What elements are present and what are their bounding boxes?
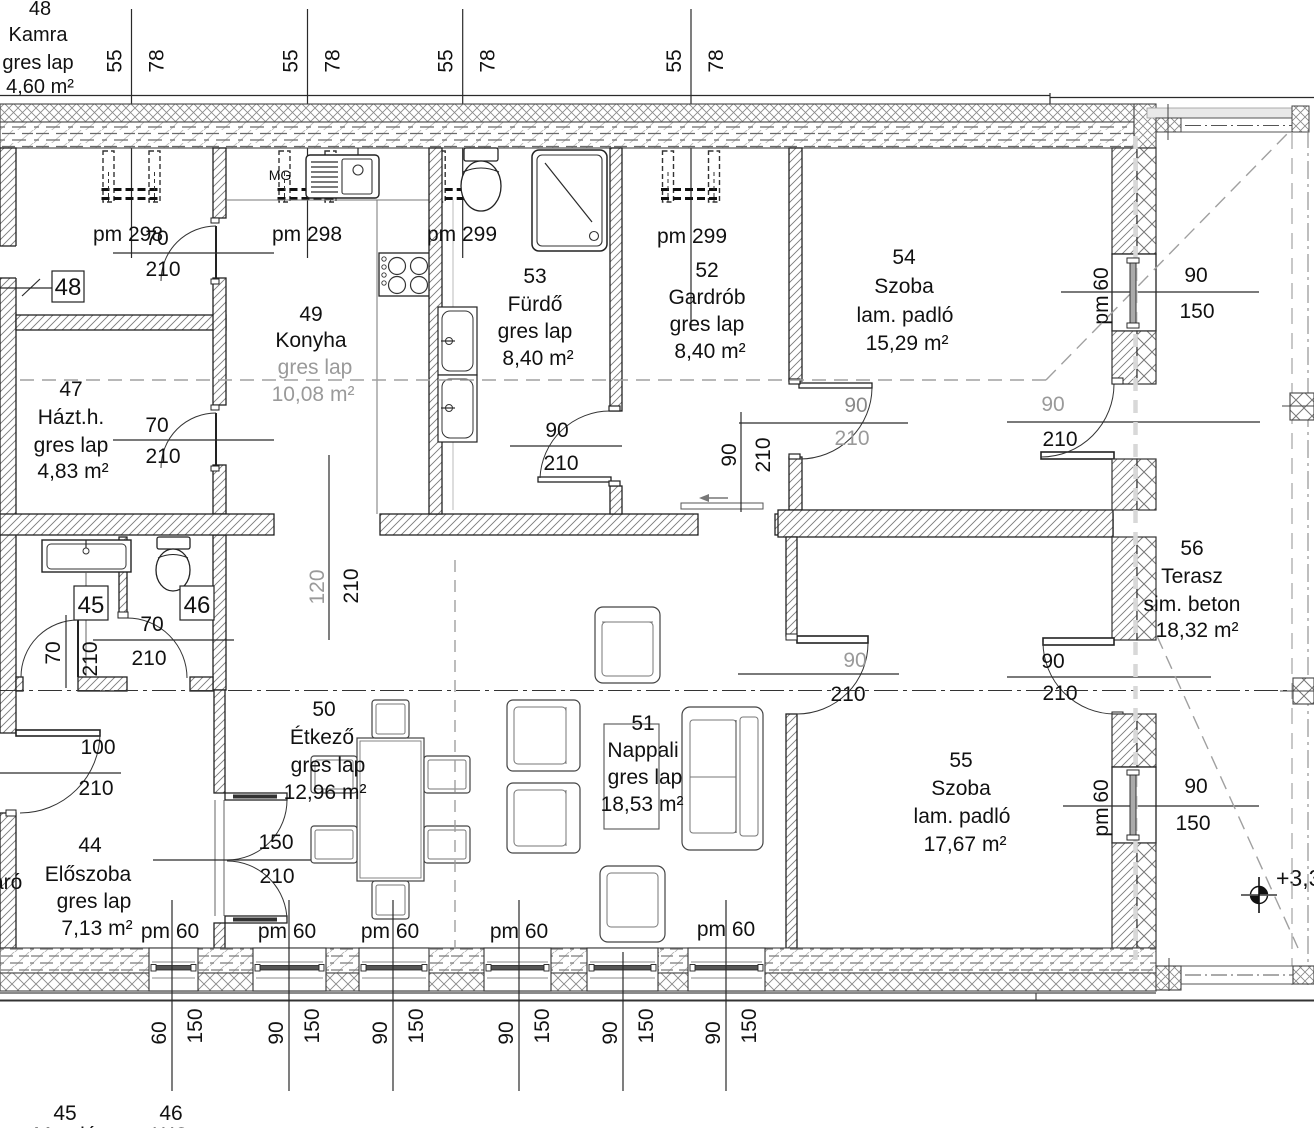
svg-text:50: 50 — [312, 698, 335, 721]
terrace right edge dash-dot vertical — [1307, 130, 1309, 990]
room label 48 Kamra (top-left text block) — [2, 0, 74, 98]
window glazing restamp 55 — [1127, 770, 1139, 840]
svg-text:210: 210 — [543, 452, 578, 475]
dashed divider line Etkezo/Nappali — [454, 560, 456, 947]
svg-text:52: 52 — [695, 259, 718, 282]
svg-text:70: 70 — [140, 613, 163, 636]
terrace band corner block right — [1293, 966, 1314, 984]
Nappali label box — [604, 724, 659, 829]
svg-text:210: 210 — [145, 258, 180, 281]
bottom window 1 — [149, 948, 198, 991]
svg-text:gres lap: gres lap — [608, 766, 683, 789]
bottom wall of rooms 45/46 piece c — [190, 677, 213, 691]
armchair pair left 1 — [507, 700, 580, 771]
svg-text:gres lap: gres lap — [57, 890, 132, 913]
svg-text:90: 90 — [265, 1021, 288, 1044]
horizontal wall below rooms 47/49 (left piece) — [0, 514, 274, 535]
bottom dimension witness line 3 — [369, 900, 428, 1091]
skylight window pm symbol 2 — [278, 151, 338, 202]
dining chair 4 — [311, 826, 357, 863]
dimension 70/210 room46 door — [93, 613, 234, 670]
kitchen sink unit — [306, 148, 379, 198]
dimension 150/210 double door — [153, 831, 311, 888]
room 44 Eloszoba label block — [45, 834, 133, 940]
bottom window 3 — [359, 948, 429, 991]
svg-text:gres lap: gres lap — [34, 434, 109, 457]
bottom exterior wall crosshatch layer — [0, 973, 1156, 991]
east wall W6 segment B — [1112, 459, 1156, 510]
svg-text:pm 60: pm 60 — [141, 920, 199, 943]
svg-text:51: 51 — [631, 712, 654, 735]
svg-text:70: 70 — [42, 641, 65, 664]
bottom dimension witness line 6 — [702, 900, 761, 1091]
bottom dimension witness line 1 — [148, 900, 207, 1091]
svg-text:78: 78 — [705, 49, 728, 72]
terrace band witness tick — [1168, 958, 1170, 991]
dining chair 2 — [372, 881, 409, 919]
entry door leaf and arc (100/210) — [6, 730, 100, 816]
top exterior wall brick/insulation layer — [0, 122, 1134, 148]
roof dashed diagonal B — [1157, 636, 1298, 948]
sofa couch — [682, 707, 763, 850]
shower tray — [532, 150, 607, 251]
svg-text:Házt.h.: Házt.h. — [38, 406, 105, 429]
wall W1 lower segment (right of Hazt.h.) — [213, 465, 226, 514]
armchair bottom — [600, 866, 665, 942]
room 52 Gardrob label block — [668, 259, 745, 363]
column block on right dashed line (upper) — [1282, 393, 1314, 420]
svg-text:60: 60 — [148, 1021, 171, 1044]
svg-text:54: 54 — [892, 246, 916, 269]
dining table — [357, 738, 424, 881]
svg-text:150: 150 — [301, 1008, 324, 1043]
divider wall between WC 45 and WC 46 — [119, 537, 127, 616]
svg-text:120: 120 — [306, 569, 329, 604]
washbasin 1 — [438, 307, 477, 375]
svg-text:53: 53 — [523, 265, 546, 288]
svg-text:150: 150 — [1175, 812, 1210, 835]
skylight window pm symbol 3 — [433, 151, 493, 202]
svg-text:8,40 m²: 8,40 m² — [674, 340, 745, 363]
svg-text:78: 78 — [322, 49, 345, 72]
svg-text:210: 210 — [131, 647, 166, 670]
svg-text:7,13 m²: 7,13 m² — [61, 917, 132, 940]
bottom dimension witness line 4 — [495, 900, 554, 1091]
svg-text:90: 90 — [545, 419, 568, 442]
svg-text:45: 45 — [78, 592, 105, 619]
dimension 90/210 room 55 entrance — [738, 649, 899, 706]
wall W3 lower stub — [610, 486, 622, 514]
svg-text:90: 90 — [1184, 775, 1207, 798]
dimension 90/210 terrace door 55 — [1007, 650, 1211, 705]
svg-text:78: 78 — [477, 49, 500, 72]
bottom window 4 — [484, 948, 551, 991]
east wall W6 segment D (room 55 bottom) — [1112, 843, 1156, 948]
svg-text:90: 90 — [702, 1021, 725, 1044]
column block on right dashed line (lower) — [1280, 678, 1314, 704]
terrace right edge dashed vertical — [1291, 133, 1293, 985]
east wall W6 segment C (room 55 top) — [1112, 537, 1156, 640]
svg-text:210: 210 — [340, 568, 363, 603]
wall W4 lower stub — [789, 457, 802, 510]
room 55 entrance door leaf and arc — [786, 634, 868, 714]
wall between room 48 and room 47 — [16, 315, 226, 330]
svg-text:150: 150 — [1179, 300, 1214, 323]
svg-text:150: 150 — [405, 1008, 428, 1043]
bathroom door (90/210) leaf and arc — [538, 406, 620, 486]
window glazing restamp 54 — [1127, 258, 1139, 328]
svg-text:55: 55 — [663, 49, 686, 72]
svg-text:Étkező: Étkező — [290, 726, 354, 749]
dimension pm60 / 90/150 for room54 window — [1061, 264, 1259, 325]
top dimension chain lines — [0, 93, 1314, 107]
svg-text:áró: áró — [0, 871, 22, 894]
wall W7 lower stub — [214, 923, 225, 948]
svg-text:18,32 m²: 18,32 m² — [1156, 619, 1239, 642]
double door arc 1 — [227, 800, 287, 860]
wall W1 upper segment (right of Kamra) — [213, 148, 226, 218]
svg-text:8,40 m²: 8,40 m² — [502, 347, 573, 370]
double door arc 2 — [227, 861, 287, 921]
horizontal wall between room 54 and room 55 — [778, 510, 1113, 537]
room 51 Nappali label block — [601, 712, 684, 816]
left exterior wall upper segment — [0, 148, 16, 733]
svg-text:gres lap: gres lap — [498, 320, 573, 343]
bottom dimension witness line 2 — [265, 900, 324, 1091]
svg-text:17,67 m²: 17,67 m² — [924, 833, 1007, 856]
dimension 70/210 room45 door (rotated) — [42, 615, 102, 688]
svg-text:150: 150 — [184, 1008, 207, 1043]
east wall W6 segment A (room 54 top) — [1112, 148, 1156, 254]
svg-text:210: 210 — [79, 641, 102, 676]
kitchen opening dimension 120/210 — [306, 455, 363, 640]
svg-text:Konyha: Konyha — [275, 329, 347, 352]
double door leaf 2 — [225, 916, 287, 923]
svg-text:60: 60 — [1090, 267, 1113, 290]
svg-text:pm 60: pm 60 — [258, 920, 316, 943]
svg-text:210: 210 — [145, 445, 180, 468]
terrace band corner block left — [1156, 966, 1181, 990]
east wall W6 block above window 55 — [1112, 714, 1156, 767]
kitchen counter edge lines — [226, 200, 429, 514]
dimension 90/210 terrace door 54 — [1007, 393, 1260, 451]
svg-text:210: 210 — [1042, 682, 1077, 705]
svg-text:90: 90 — [495, 1021, 518, 1044]
svg-text:gres lap: gres lap — [670, 313, 745, 336]
wall W7 jamb lines through opening — [215, 800, 224, 916]
svg-text:55: 55 — [949, 749, 972, 772]
svg-text:Előszoba: Előszoba — [45, 863, 132, 886]
opening in left wall of Kamra — [0, 246, 17, 278]
wall face projection dashed line (terrace side) — [1133, 136, 1138, 960]
svg-text:150: 150 — [531, 1008, 554, 1043]
svg-text:150: 150 — [635, 1008, 658, 1043]
svg-text:210: 210 — [1042, 428, 1077, 451]
bottom exterior wall brick layer — [0, 948, 1156, 973]
svg-text:90: 90 — [1041, 650, 1064, 673]
svg-text:Kamra: Kamra — [9, 24, 69, 46]
svg-text:70: 70 — [145, 414, 168, 437]
hall door dimension 90/210 vertical — [718, 412, 775, 512]
skylight window pm symbol 1 — [102, 151, 162, 202]
svg-text:90: 90 — [1184, 264, 1207, 287]
svg-text:55: 55 — [280, 49, 303, 72]
dining chair 5 — [424, 756, 470, 793]
svg-text:46: 46 — [159, 1102, 182, 1125]
terrace door of room 55 leaf and arc — [1043, 638, 1123, 718]
wall W2 between kitchen and bathroom — [429, 148, 442, 514]
entrance threshold line and arrow — [681, 494, 763, 509]
svg-text:18,53 m²: 18,53 m² — [601, 793, 684, 816]
svg-text:210: 210 — [78, 777, 113, 800]
svg-text:MG: MG — [269, 167, 292, 183]
svg-text:210: 210 — [259, 865, 294, 888]
door room 45 leaf and arc — [21, 620, 78, 677]
dimension 70/210 for room 48 door — [113, 227, 274, 281]
svg-text:78: 78 — [146, 49, 169, 72]
room 54 Szoba label block — [857, 246, 954, 355]
terrace bottom edge band — [1181, 966, 1310, 984]
svg-text:210: 210 — [752, 437, 775, 472]
armchair pair left 2 — [507, 783, 580, 853]
svg-text:49: 49 — [299, 303, 322, 326]
dimension 70/210 for room 47 door — [113, 414, 274, 468]
ground line below building — [0, 993, 1314, 1001]
svg-text:gres lap: gres lap — [278, 356, 353, 379]
svg-text:90: 90 — [718, 443, 741, 466]
svg-text:pm 60: pm 60 — [361, 920, 419, 943]
top dimension witness line 3 with 55/78 labels — [435, 9, 500, 258]
svg-text:55: 55 — [435, 49, 458, 72]
svg-text:lam. padló: lam. padló — [914, 805, 1011, 828]
toilet (bathroom 53) — [461, 148, 501, 211]
svg-text:4,60 m²: 4,60 m² — [6, 76, 74, 98]
svg-text:150: 150 — [258, 831, 293, 854]
svg-text:47: 47 — [59, 378, 82, 401]
svg-text:90: 90 — [599, 1021, 622, 1044]
roof dashed diagonal A — [1046, 133, 1288, 380]
boxed room number 45 — [74, 586, 108, 620]
window pm60 in room 55 east wall — [1112, 767, 1156, 843]
east wall W6 block below window 54 — [1112, 331, 1156, 384]
svg-text:sim. beton: sim. beton — [1144, 593, 1241, 616]
armchair top (near room55 wall) — [595, 607, 660, 683]
washbasin room 45 — [42, 540, 131, 677]
svg-text:10,08 m²: 10,08 m² — [272, 383, 355, 406]
svg-text:48: 48 — [55, 274, 82, 301]
svg-text:Gardrób: Gardrób — [668, 286, 745, 309]
svg-text:44: 44 — [78, 834, 102, 857]
svg-text:210: 210 — [830, 683, 865, 706]
dimension pm60 / 90/150 for room55 window — [1063, 775, 1259, 837]
roof ridge dashed line horizontal — [20, 379, 1046, 381]
top dimension witness line 1 with 55/78 labels — [104, 9, 169, 258]
svg-text:150: 150 — [738, 1008, 761, 1043]
svg-text:15,29 m²: 15,29 m² — [866, 332, 949, 355]
svg-text:pm 298: pm 298 — [93, 223, 163, 246]
window pm60 in room 54 east wall — [1112, 254, 1156, 331]
toilet room 46 — [156, 537, 190, 591]
dimension 90/210 room 54 entrance — [739, 394, 908, 450]
top exterior wall crosshatch layer — [0, 104, 1142, 122]
dimension 90/210 bathroom door — [510, 419, 622, 475]
boxed room number 48 — [52, 271, 84, 302]
bottom dimension witness line 5 — [599, 952, 658, 1091]
room 56 Terasz label block — [1144, 537, 1241, 642]
horizontal wall below rooms 53/52 (middle piece) — [380, 514, 698, 535]
svg-text:48: 48 — [29, 0, 51, 20]
dining chair 1 — [372, 700, 409, 738]
svg-text:WC: WC — [154, 1124, 189, 1128]
top dimension witness line 2 with 55/78 labels — [280, 9, 345, 258]
svg-text:90: 90 — [1041, 393, 1064, 416]
room 50 Etkezo label block — [284, 698, 367, 804]
svg-text:Mosdó: Mosdó — [33, 1124, 96, 1128]
svg-text:pm 298: pm 298 — [272, 223, 342, 246]
top-right wall corner column — [1134, 104, 1156, 148]
cooktop / stove with 4 burners — [379, 253, 432, 296]
section dash-dot line across plan — [0, 690, 1314, 692]
room 49 Konyha label block — [272, 303, 355, 406]
clipped bottom row labels — [33, 1124, 188, 1128]
svg-text:45: 45 — [53, 1102, 76, 1125]
skylight window pm symbol 4 — [661, 151, 721, 202]
svg-text:46: 46 — [184, 592, 211, 619]
door of room 47 (70/210) leaf and arc — [161, 405, 219, 471]
svg-text:55: 55 — [104, 49, 127, 72]
svg-text:Terasz: Terasz — [1161, 565, 1223, 588]
svg-text:Nappali: Nappali — [607, 739, 678, 762]
dining chair 3 — [311, 756, 357, 793]
double door 150/210 leaf 1 — [225, 793, 287, 800]
left wall dimension tick — [0, 279, 52, 296]
door room 46 arc — [118, 612, 187, 678]
bottom window 6 — [688, 948, 765, 991]
svg-text:pm 299: pm 299 — [427, 223, 497, 246]
svg-text:12,96 m²: 12,96 m² — [284, 781, 367, 804]
room 47 label block — [34, 378, 109, 483]
door of room 48 (70/210) leaf and arc — [161, 218, 219, 284]
svg-text:pm: pm — [1090, 807, 1113, 836]
room 55 Szoba label block — [914, 749, 1011, 856]
top-right terrace parapet band — [1147, 104, 1309, 140]
bottom wall of rooms 45/46 piece b — [78, 677, 127, 691]
svg-text:pm 299: pm 299 — [657, 225, 727, 248]
room 54 entrance door leaf and arc — [789, 379, 872, 459]
svg-text:210: 210 — [834, 427, 869, 450]
bottom window 5 — [587, 948, 658, 991]
bottom wall of rooms 45/46 piece a — [16, 677, 23, 691]
svg-text:lam. padló: lam. padló — [857, 304, 954, 327]
wall W1 mid segment — [213, 278, 226, 405]
svg-text:90: 90 — [369, 1021, 392, 1044]
washbasin 2 — [438, 375, 477, 442]
svg-text:gres lap: gres lap — [291, 754, 366, 777]
wall W4 between Gardrob and room 54 — [789, 148, 802, 381]
svg-text:Szoba: Szoba — [931, 777, 991, 800]
horizontal wall right of entrance (under Gardrob / room 54) — [775, 514, 1113, 535]
svg-text:90: 90 — [844, 394, 867, 417]
wall W5 upper segment between Nappali and room 55 — [786, 537, 797, 636]
room 53 Furdo label block — [498, 265, 574, 370]
svg-text:Fürdő: Fürdő — [508, 293, 563, 316]
svg-text:60: 60 — [1090, 779, 1113, 802]
svg-text:90: 90 — [843, 649, 866, 672]
bottom window 2 — [253, 948, 326, 991]
terrace door of room 54 leaf and arc — [1041, 378, 1123, 459]
svg-text:100: 100 — [80, 736, 115, 759]
svg-text:4,83 m²: 4,83 m² — [37, 460, 108, 483]
top dimension witness line 4 with 55/78 labels — [663, 9, 728, 330]
elevation marker +3,3 — [1241, 865, 1314, 913]
wall W1 segment right of WC rooms — [213, 535, 226, 690]
svg-text:56: 56 — [1180, 537, 1203, 560]
dimension 100/210 entry door — [0, 736, 121, 800]
svg-text:gres lap: gres lap — [2, 52, 73, 74]
wall W7 between Eloszoba and Etkezo — [214, 690, 225, 793]
bathroom wall finish line — [452, 200, 454, 510]
wall W5 lower segment — [786, 714, 797, 948]
left exterior wall lower segment — [0, 813, 16, 948]
dining chair 6 — [424, 826, 470, 863]
boxed room number 46 — [180, 586, 214, 620]
svg-text:Szoba: Szoba — [874, 275, 934, 298]
svg-text:pm: pm — [1090, 295, 1113, 324]
wall W3 between bathroom and Gardrob — [610, 148, 622, 411]
